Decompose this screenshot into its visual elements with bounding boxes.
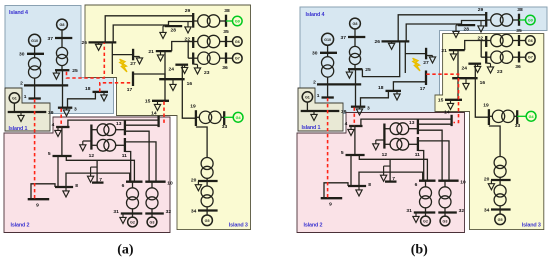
- island 3 region (yellow, panel b): [435, 34, 544, 230]
- svg-text:Island 4: Island 4: [9, 10, 28, 16]
- red dashed cut line 1-39-9 (panel b): [327, 98, 329, 198]
- island 4 region (blue, panel a): [5, 6, 114, 114]
- red dashed cut line 3-4 (panel a): [60, 109, 62, 127]
- svg-text:Island 3: Island 3: [522, 223, 541, 229]
- island 3 region (yellow, panel a): [85, 5, 251, 230]
- circuit panel b: [301, 7, 536, 226]
- svg-text:(a): (a): [117, 243, 134, 258]
- svg-text:Island 2: Island 2: [11, 223, 30, 229]
- island 2 region (pink, panel a): [4, 117, 170, 233]
- svg-text:Island 2: Island 2: [304, 222, 323, 228]
- island 2 region (pink, panel b): [297, 113, 465, 233]
- wire 25-26 (panel b only): [362, 42, 399, 77]
- island 4 region (blue, panel b): [300, 7, 547, 114]
- svg-text:Island 1: Island 1: [302, 125, 321, 131]
- circuit panel a: [8, 8, 243, 227]
- red dashed cut line 3-4 (panel b): [353, 108, 355, 126]
- red dashed cut line 1-39-9 (panel a): [34, 99, 36, 199]
- red dashed cut line 25-26 (panel a): [67, 43, 105, 78]
- wire 17-16 (panel a only): [133, 74, 165, 79]
- svg-text:(b): (b): [411, 243, 428, 258]
- island 1 region (beige, panel a): [5, 88, 50, 131]
- island 1 region (beige, panel b): [298, 88, 343, 131]
- red dashed cut line 18-17 (panel a): [100, 83, 132, 92]
- svg-text:Island 3: Island 3: [229, 223, 248, 229]
- wire 18-17 (panel b only): [393, 82, 426, 91]
- svg-text:Island 4: Island 4: [306, 12, 325, 18]
- svg-text:Island 1: Island 1: [9, 126, 28, 132]
- red dashed cut line 17-16-14 (panel b): [426, 74, 458, 122]
- red dashed cut line 15-14 (panel a): [163, 102, 165, 125]
